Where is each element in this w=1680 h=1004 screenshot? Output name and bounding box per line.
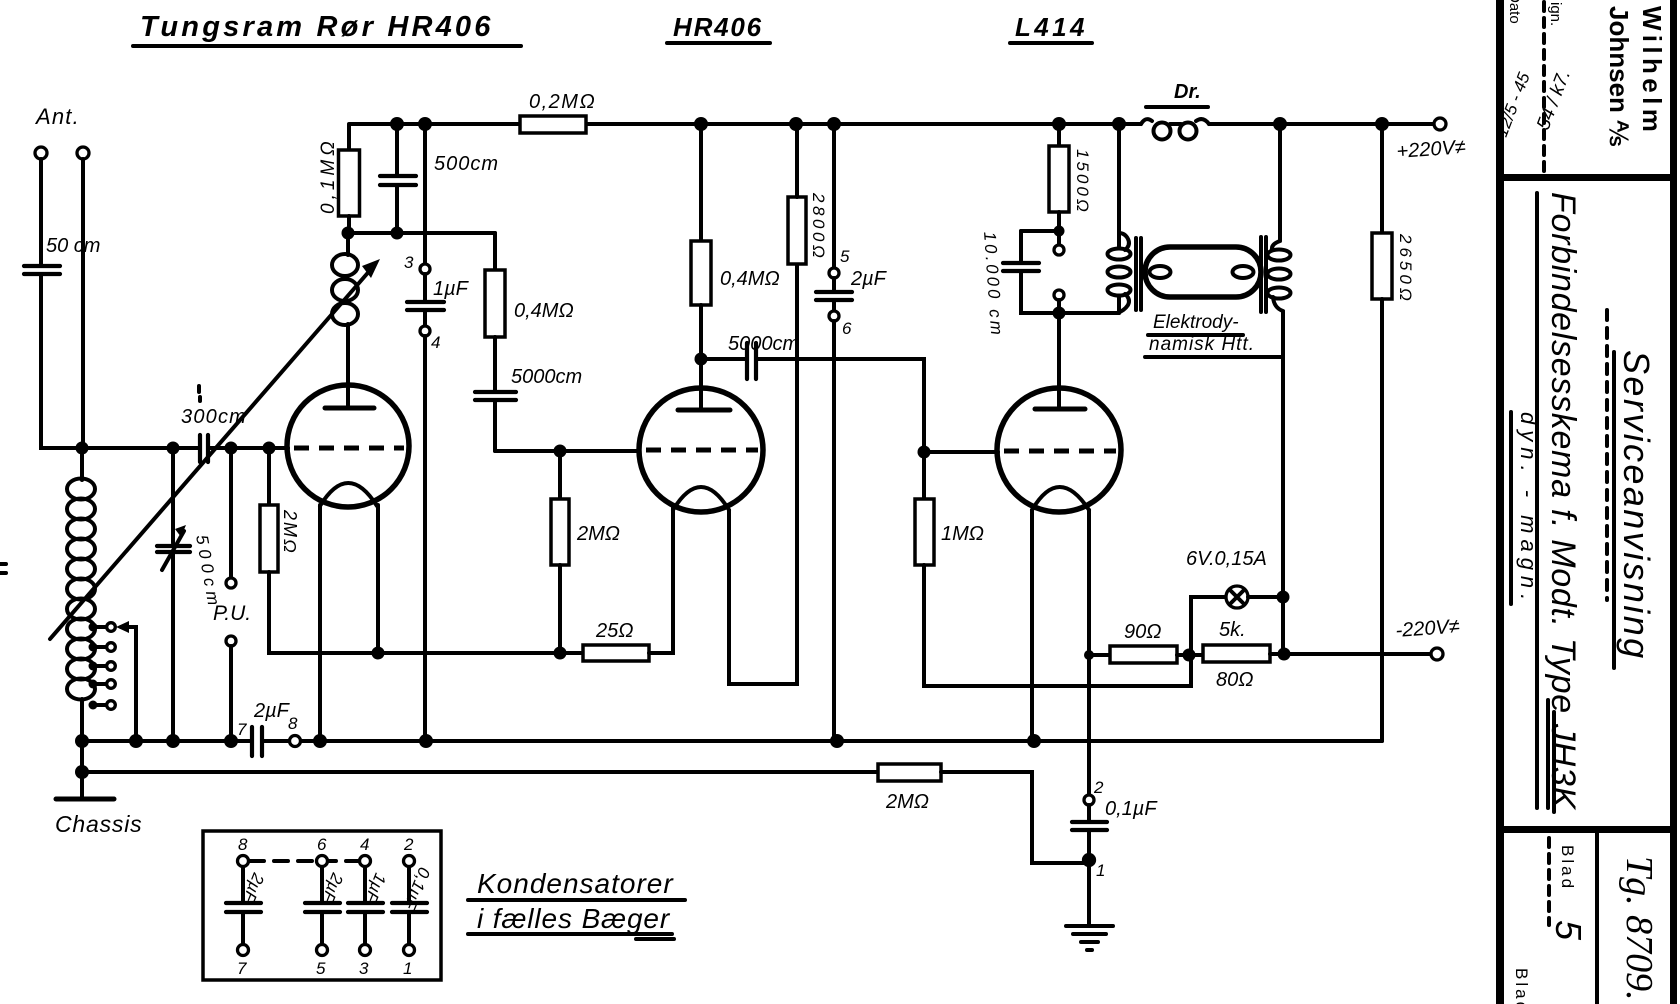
svg-text:Johnsen ⅍: Johnsen ⅍ bbox=[1604, 6, 1634, 146]
resistor 5k 80Ω bbox=[1203, 619, 1432, 691]
terminal Ant 2 bbox=[77, 147, 89, 159]
triode V3 left leg bbox=[1030, 510, 1034, 741]
panel dash line bottom block bbox=[1547, 838, 1551, 925]
node grid bus PU bbox=[225, 442, 238, 455]
node 1500 top bbox=[1052, 117, 1066, 131]
chassis ground bbox=[55, 741, 142, 837]
terminal +220V bbox=[1396, 118, 1467, 163]
svg-text:namisk Htt.: namisk Htt. bbox=[1149, 334, 1255, 355]
title HR406 bbox=[667, 12, 770, 43]
triode V1 left leg bbox=[318, 505, 322, 741]
triode V1 envelope bbox=[287, 385, 409, 507]
svg-text:5k.: 5k. bbox=[1219, 619, 1246, 641]
node 1µF top bbox=[418, 117, 432, 131]
svg-text:Dato: Dato bbox=[1506, 0, 1523, 24]
speaker body bbox=[1145, 247, 1261, 297]
svg-text:7: 7 bbox=[237, 959, 247, 978]
node V3 grid bbox=[918, 446, 931, 459]
svg-text:5: 5 bbox=[840, 247, 850, 266]
block capacitor 2µF pin 6-5 bbox=[305, 835, 347, 978]
node 2800 top bbox=[789, 117, 803, 131]
RF coil L2 bbox=[332, 233, 358, 407]
capacitor 5000cm second bbox=[701, 333, 924, 452]
node 2M bottom bbox=[554, 647, 567, 660]
svg-text:Tungsram Rør HR406: Tungsram Rør HR406 bbox=[140, 11, 494, 43]
bus-1 main earth line bbox=[82, 739, 1382, 743]
svg-text:Blad: Blad bbox=[1558, 845, 1577, 891]
wire V3 anode stem bbox=[1057, 313, 1061, 409]
svg-text:1: 1 bbox=[1096, 861, 1105, 880]
svg-text:Wilhelm: Wilhelm bbox=[1637, 6, 1667, 136]
edge dashes left margin bbox=[0, 564, 6, 573]
wire V3 grid bbox=[924, 450, 998, 454]
terminal Ant 1 bbox=[35, 147, 47, 159]
capacitor 10.000cm bbox=[980, 231, 1059, 338]
svg-text:7: 7 bbox=[237, 720, 247, 739]
choke Dr. bbox=[1141, 81, 1209, 140]
svg-text:Blad: Blad bbox=[1512, 968, 1531, 1004]
link terminals bbox=[1054, 245, 1064, 313]
block capacitor 0,1µF pin 2-1 bbox=[392, 835, 434, 978]
svg-text:1: 1 bbox=[403, 959, 412, 978]
triode V2 cathode bbox=[673, 487, 729, 510]
svg-text:2µF: 2µF bbox=[850, 268, 888, 290]
output transformer primary bbox=[1059, 124, 1131, 313]
title Tungsram Rør HR406 bbox=[133, 11, 521, 46]
capacitor 1µF terminals 3-4 bbox=[404, 124, 470, 741]
svg-text:5000cm: 5000cm bbox=[511, 366, 582, 388]
svg-text:2: 2 bbox=[1093, 778, 1104, 797]
triode V2 right leg bbox=[729, 264, 797, 684]
svg-text:5: 5 bbox=[316, 959, 326, 978]
node 1500 bottom bbox=[1054, 226, 1065, 237]
svg-text:P.U.: P.U. bbox=[213, 602, 251, 625]
svg-text:4: 4 bbox=[360, 835, 369, 854]
svg-text:ign.: ign. bbox=[1547, 2, 1564, 26]
resistor 0,4MΩ second bbox=[691, 124, 780, 359]
resistor 0,1MΩ bbox=[318, 125, 360, 233]
svg-text:0,4MΩ: 0,4MΩ bbox=[720, 268, 780, 290]
svg-text:3: 3 bbox=[404, 253, 414, 272]
svg-text:500cm: 500cm bbox=[434, 153, 499, 175]
svg-text:Kondensatorer: Kondensatorer bbox=[477, 868, 674, 899]
svg-text:2650Ω: 2650Ω bbox=[1396, 233, 1415, 305]
wire ant2 down bbox=[81, 159, 85, 448]
condenser block box bbox=[203, 831, 441, 980]
wire V2 anode stem bbox=[699, 359, 703, 409]
node cathode V1 bbox=[372, 647, 385, 660]
svg-text:6: 6 bbox=[317, 835, 327, 854]
capacitor 2µF terminals 5-6 bbox=[816, 124, 888, 741]
label Elektrodynamisk Htt. bbox=[1145, 312, 1283, 357]
lamp 6V 0,15A bbox=[1186, 548, 1283, 653]
capacitor 0,1µF terminals 2-1 bbox=[1072, 778, 1158, 880]
node ant coil top bbox=[76, 442, 89, 455]
panel right border bbox=[1670, 0, 1677, 1004]
triode V2 envelope bbox=[639, 388, 763, 512]
panel divider bottom bbox=[1504, 826, 1670, 833]
label Kondensatorer i fælles Bæger bbox=[468, 868, 685, 939]
node 0,4M-2 top bbox=[694, 117, 708, 131]
node 80 right bbox=[1278, 648, 1291, 661]
label Wilhelm Johnsen bbox=[1604, 6, 1667, 146]
tap selector arrow wire bbox=[116, 621, 136, 741]
resistor 1500Ω bbox=[1049, 124, 1092, 244]
node 2µF top bbox=[827, 117, 841, 131]
antenna coil L1 bbox=[67, 448, 95, 741]
triode V1 grid dashed bbox=[294, 446, 404, 451]
node 500cm top bbox=[390, 117, 404, 131]
node 500cm bottom bbox=[391, 227, 404, 240]
tuning arrow long bbox=[50, 259, 380, 639]
block capacitor 2µF pin 8-7 bbox=[226, 835, 268, 978]
triode V1 right leg bbox=[376, 505, 380, 653]
wire to V2 grid bbox=[495, 449, 638, 453]
svg-text:6: 6 bbox=[842, 319, 852, 338]
svg-text:0,4MΩ: 0,4MΩ bbox=[514, 300, 574, 322]
resistor 25Ω bbox=[583, 505, 673, 661]
terminal P.U. top bbox=[226, 448, 236, 588]
triode V3 cathode bbox=[1032, 487, 1089, 510]
capacitor 300cm bbox=[181, 406, 247, 462]
stray mark above 300cm bbox=[199, 386, 200, 401]
speaker secondary winding bbox=[1268, 124, 1291, 655]
resistor 1MΩ bbox=[915, 456, 1191, 686]
triode V2 grid dashed bbox=[646, 448, 758, 453]
svg-text:2: 2 bbox=[403, 835, 414, 854]
wire grid bus right bbox=[209, 446, 288, 450]
svg-text:2MΩ: 2MΩ bbox=[280, 509, 300, 555]
svg-text:Dr.: Dr. bbox=[1174, 81, 1201, 103]
node 90-5k junction bbox=[1183, 649, 1196, 662]
svg-text:1µF: 1µF bbox=[433, 278, 470, 300]
svg-text:80Ω: 80Ω bbox=[1216, 669, 1253, 691]
block capacitor 1µF pin 4-3 bbox=[348, 835, 390, 978]
svg-text:8: 8 bbox=[238, 835, 248, 854]
node bus-2 left bbox=[75, 765, 89, 779]
resistor 2MΩ V2 grid bbox=[551, 455, 620, 653]
node grid bus 500cm bbox=[167, 442, 180, 455]
resistor 0,4MΩ first bbox=[485, 233, 574, 391]
svg-text:5000cm: 5000cm bbox=[728, 333, 799, 355]
resistor 2650Ω bbox=[1372, 124, 1415, 741]
bus-2 chassis line bbox=[82, 770, 878, 774]
svg-text:Elektrody-: Elektrody- bbox=[1153, 312, 1239, 333]
node 0,1M bottom bbox=[342, 227, 355, 240]
node grid V1 bbox=[263, 442, 276, 455]
svg-text:5: 5 bbox=[1548, 920, 1589, 941]
triode V1 cathode bbox=[320, 483, 377, 506]
svg-text:i fælles Bæger: i fælles Bæger bbox=[477, 903, 671, 934]
svg-text:3: 3 bbox=[359, 959, 369, 978]
svg-text:Tg. 8709.: Tg. 8709. bbox=[1618, 856, 1660, 1001]
node V2 anode bbox=[695, 353, 708, 366]
label dyn-magn bbox=[1511, 412, 1541, 606]
svg-text:2µF: 2µF bbox=[253, 700, 291, 722]
triode V3 envelope bbox=[997, 388, 1121, 512]
triode V3 anode bbox=[1035, 407, 1085, 412]
svg-text:2MΩ: 2MΩ bbox=[576, 523, 620, 545]
resistor 2800Ω bbox=[788, 124, 828, 264]
svg-text:Ant.: Ant. bbox=[34, 104, 80, 129]
resistor 2MΩ V1 grid bbox=[260, 453, 583, 653]
wire y233 bbox=[348, 231, 495, 235]
svg-text:1500Ω: 1500Ω bbox=[1073, 149, 1092, 215]
triode V1 anode bbox=[325, 406, 374, 411]
svg-text:L414: L414 bbox=[1015, 12, 1088, 42]
panel dash line top block bbox=[1542, 2, 1546, 172]
capacitor 5000cm first bbox=[475, 366, 582, 451]
capacitor 2µF terminals 7-8 bbox=[237, 700, 301, 756]
capacitor 500cm top bbox=[380, 124, 499, 233]
svg-text:25Ω: 25Ω bbox=[595, 620, 633, 642]
node transformer primary top bbox=[1112, 117, 1126, 131]
resistor 0,2MΩ bbox=[520, 91, 596, 133]
wire ant1 to grid bus bbox=[41, 275, 199, 448]
svg-text:8: 8 bbox=[288, 714, 298, 733]
svg-text:50 cm: 50 cm bbox=[46, 235, 100, 257]
triode V2 anode bbox=[678, 408, 730, 413]
resistor 90Ω bbox=[1089, 621, 1203, 663]
label Serviceanvisning bbox=[1607, 310, 1657, 668]
triode V3 grid dashed bbox=[1004, 449, 1116, 454]
panel bottom vertical divider bbox=[1595, 831, 1599, 1004]
panel left border bbox=[1496, 0, 1504, 1004]
terminal P.U. bottom bbox=[213, 602, 251, 741]
coil taps with terminals bbox=[89, 623, 116, 710]
variable capacitor 500cm bbox=[157, 448, 224, 741]
svg-text:4: 4 bbox=[431, 333, 440, 352]
svg-text:6V.0,15A: 6V.0,15A bbox=[1186, 548, 1267, 570]
svg-text:2MΩ: 2MΩ bbox=[885, 791, 929, 813]
node secondary top bbox=[1273, 117, 1287, 131]
svg-text:-220V≠: -220V≠ bbox=[1395, 616, 1461, 642]
svg-text:2800Ω: 2800Ω bbox=[809, 192, 828, 261]
capacitor 50cm bbox=[24, 235, 100, 274]
svg-text:HR406: HR406 bbox=[673, 12, 763, 42]
node V3 anode bbox=[1053, 307, 1066, 320]
block dashed link bbox=[250, 859, 360, 863]
label Dato bbox=[1492, 0, 1534, 139]
svg-text:Chassis: Chassis bbox=[55, 811, 142, 837]
svg-text:dyn. - magn.: dyn. - magn. bbox=[1516, 412, 1541, 606]
ground earth bbox=[1066, 865, 1113, 950]
svg-text:1MΩ: 1MΩ bbox=[941, 523, 984, 545]
top bus left segment bbox=[349, 122, 1141, 126]
title L414 bbox=[1010, 12, 1092, 43]
node 2650 top bbox=[1375, 117, 1389, 131]
wire ant1 down bbox=[39, 159, 43, 264]
svg-text:0,1MΩ: 0,1MΩ bbox=[318, 137, 339, 214]
node cathode V3 bbox=[1084, 650, 1094, 660]
node V2 grid bbox=[554, 445, 567, 458]
svg-text:0,2MΩ: 0,2MΩ bbox=[529, 91, 596, 113]
svg-text:90Ω: 90Ω bbox=[1124, 621, 1161, 643]
transformer core left bbox=[1136, 238, 1141, 310]
terminal -220V bbox=[1395, 616, 1461, 660]
resistor 2MΩ series bbox=[878, 764, 1084, 863]
svg-text:0,1µF: 0,1µF bbox=[1105, 798, 1158, 820]
label Sign bbox=[1533, 2, 1575, 133]
label Forbindelsesskema bbox=[1537, 192, 1582, 812]
top bus right segment bbox=[1209, 122, 1434, 126]
bus-1 nodes bbox=[75, 734, 1041, 748]
panel divider top bbox=[1504, 174, 1670, 181]
node lamp right bbox=[1277, 591, 1290, 604]
transformer core right bbox=[1261, 237, 1266, 312]
svg-text:Serviceanvisning: Serviceanvisning bbox=[1616, 350, 1657, 661]
triode V3 right leg bbox=[1087, 510, 1091, 795]
